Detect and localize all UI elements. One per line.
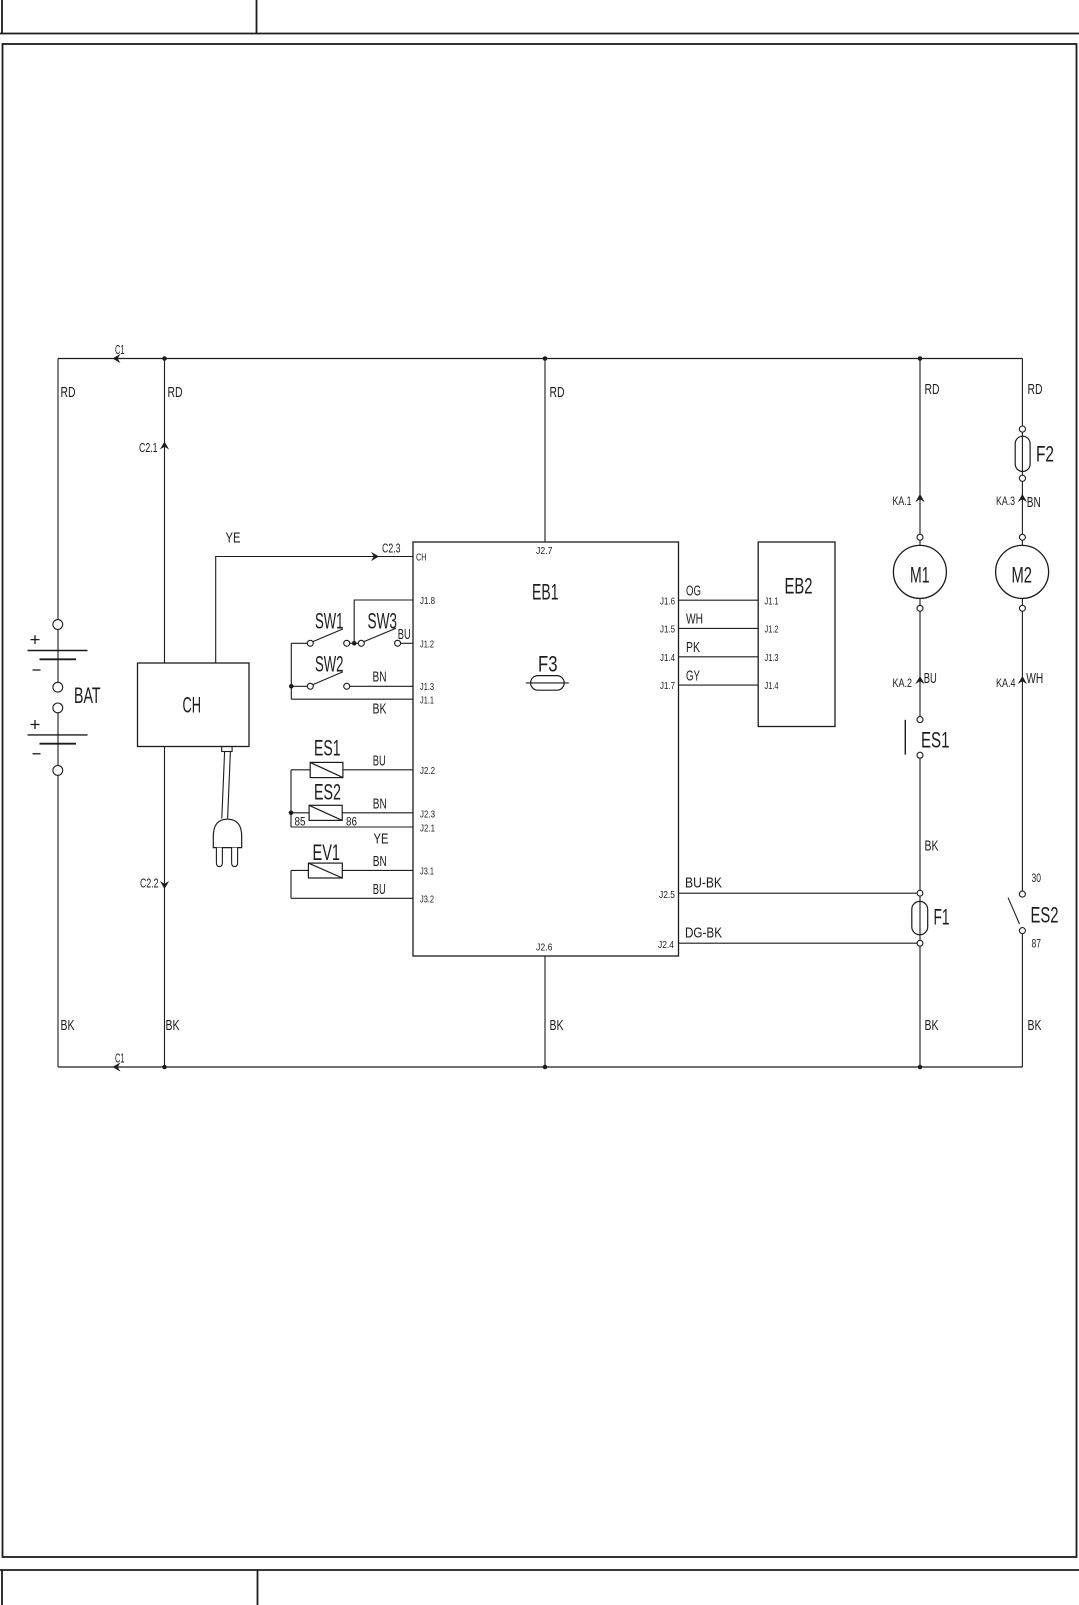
svg-text:BN: BN xyxy=(373,796,387,813)
relay coil ES2 box xyxy=(309,805,342,820)
svg-text:J1.1: J1.1 xyxy=(765,596,779,608)
battery cell 2 minus sign xyxy=(33,753,41,755)
svg-text:WH: WH xyxy=(686,611,703,628)
svg-text:RD: RD xyxy=(61,384,76,401)
battery cell 2 long plate xyxy=(28,734,88,736)
svg-text:DG-BK: DG-BK xyxy=(685,925,722,942)
wire SW1 to SW3 xyxy=(350,642,359,644)
svg-text:BN: BN xyxy=(373,669,387,686)
svg-text:KA.4: KA.4 xyxy=(996,676,1016,690)
svg-text:J1.8: J1.8 xyxy=(420,595,435,607)
junction SW2 node xyxy=(289,684,294,689)
fuse F2 body xyxy=(1015,436,1030,471)
battery mid terminal circle upper xyxy=(53,682,63,692)
svg-text:M2: M2 xyxy=(1012,563,1033,588)
wire BN SW2 to EB1 J1.3 xyxy=(350,685,413,687)
svg-text:BK: BK xyxy=(925,838,939,855)
svg-text:SW2: SW2 xyxy=(315,652,344,677)
wire BN EV1 to EB1 J3.1 xyxy=(342,869,413,871)
battery cell 2 short plate xyxy=(40,743,77,745)
fuse F1 terminal circle top xyxy=(917,890,923,896)
battery mid terminal circle lower xyxy=(53,703,63,713)
svg-text:RD: RD xyxy=(550,384,565,401)
wire YE charger to EB1 pin CH xyxy=(216,557,413,664)
svg-text:C2.3: C2.3 xyxy=(382,542,401,556)
fuse F1 element line xyxy=(919,896,921,940)
switch SW1 left contact xyxy=(307,640,313,646)
svg-text:ES1: ES1 xyxy=(314,736,341,761)
svg-text:ES2: ES2 xyxy=(1031,903,1059,928)
svg-text:F2: F2 xyxy=(1036,442,1054,467)
switch SW3 right contact xyxy=(395,640,401,646)
wire GY EB1 J1.7 to EB2 J1.4 xyxy=(679,684,759,686)
junction top bus / charger branch xyxy=(162,356,167,361)
relay coil ES1 box xyxy=(310,762,343,777)
wire BU ES1 to EB1 J2.2 xyxy=(343,769,413,771)
wire battery positive RD xyxy=(57,359,59,620)
svg-text:PK: PK xyxy=(686,639,700,656)
svg-text:SW1: SW1 xyxy=(315,609,344,634)
wire coil common vertical xyxy=(290,770,292,827)
node KA.1 arrow xyxy=(915,494,924,502)
wire RD top bus corner to F2 xyxy=(1021,359,1023,427)
motor M2 body circle xyxy=(996,545,1049,598)
svg-text:ES1: ES1 xyxy=(921,728,950,753)
wire BK EB1 J2.6 to bottom bus xyxy=(544,956,546,1067)
node C2.2 arrow xyxy=(160,881,169,889)
svg-text:CH: CH xyxy=(183,693,202,718)
wire EB1 J1.8 to SW3 junction xyxy=(354,600,413,643)
wire C2.1 top bus to charger xyxy=(164,359,166,664)
wire M1 top terminal xyxy=(919,540,921,545)
wire WH M2 to ES2 contact xyxy=(1021,611,1023,891)
wire BU SW3 to EB1 J1.2 xyxy=(401,642,413,644)
contact ES1 fixed bar xyxy=(904,720,906,755)
contact ES2 blade xyxy=(1008,898,1019,924)
wire RD top bus to M1 xyxy=(919,359,921,535)
wire DG-BK EB1 J2.4 to F1 bottom xyxy=(679,942,918,944)
switch SW1 right contact xyxy=(344,640,350,646)
junction top bus / EB1 J2.7 branch xyxy=(543,356,548,361)
wire BU-BK EB1 J2.5 to F1 top xyxy=(679,892,918,894)
title block bottom strip left edge xyxy=(1,1570,3,1605)
svg-text:BK: BK xyxy=(61,1017,75,1034)
wire BK common to EB1 J1.1 xyxy=(291,698,413,700)
svg-text:EB2: EB2 xyxy=(785,574,813,599)
switch SW2 right contact xyxy=(344,683,350,689)
node KA.4 arrow xyxy=(1018,676,1027,684)
fuse F3 body xyxy=(531,676,565,691)
title block top strip divider xyxy=(256,0,258,34)
wire battery negative BK xyxy=(57,775,59,1067)
junction bottom bus / F1 branch xyxy=(918,1065,923,1070)
wire PK EB1 J1.4 to EB2 J1.3 xyxy=(679,656,759,658)
svg-text:WH: WH xyxy=(1026,670,1043,687)
fuse F3 element line xyxy=(526,682,569,684)
wire BN F2 to M2 xyxy=(1021,481,1023,534)
svg-text:EV1: EV1 xyxy=(313,840,341,865)
contact ES2 terminal circle 87 xyxy=(1019,928,1025,934)
svg-text:87: 87 xyxy=(1032,939,1042,951)
svg-text:C1: C1 xyxy=(115,1052,125,1066)
svg-text:J1.6: J1.6 xyxy=(660,596,675,608)
svg-text:BK: BK xyxy=(550,1017,564,1034)
svg-text:M1: M1 xyxy=(910,563,930,588)
svg-text:BN: BN xyxy=(373,853,387,870)
wire battery cell 1 xyxy=(57,629,59,682)
battery BAT terminal circle top xyxy=(53,620,63,630)
svg-text:C2.2: C2.2 xyxy=(140,877,159,891)
svg-text:J1.3: J1.3 xyxy=(420,681,434,693)
junction SW1/SW3 node xyxy=(352,641,357,646)
motor M1 terminal circle bottom xyxy=(917,605,923,611)
svg-text:J2.1: J2.1 xyxy=(420,823,435,835)
svg-text:C2.1: C2.1 xyxy=(139,441,158,455)
svg-text:30: 30 xyxy=(1032,873,1042,885)
title block bottom strip divider xyxy=(257,1570,259,1605)
svg-text:J2.4: J2.4 xyxy=(658,939,674,951)
junction ES2 coil node xyxy=(289,811,294,816)
wire BU M1 to ES1 contact xyxy=(919,611,921,716)
svg-text:BU: BU xyxy=(924,670,937,687)
svg-text:J2.6: J2.6 xyxy=(536,942,553,954)
svg-text:J1.4: J1.4 xyxy=(765,680,779,692)
wire RD top bus to EB1 J2.7 xyxy=(544,359,546,543)
wire BK ES2 to bottom bus xyxy=(1021,934,1023,1067)
contact ES2 terminal circle 30 xyxy=(1019,891,1025,897)
wire BN ES2 to EB1 J2.3 xyxy=(342,812,413,814)
wire M2 top terminal xyxy=(1021,540,1023,545)
svg-text:RD: RD xyxy=(168,384,183,401)
node C2.1 arrow xyxy=(160,442,169,450)
wire charger to bottom bus C2.2 xyxy=(164,747,166,1068)
svg-text:J2.2: J2.2 xyxy=(420,765,435,777)
title block top strip bottom line xyxy=(0,33,1079,35)
wire YE common to EB1 J2.1 xyxy=(291,826,413,828)
svg-text:BK: BK xyxy=(1028,1017,1042,1034)
svg-text:F3: F3 xyxy=(538,652,558,677)
fuse F1 body xyxy=(912,901,928,934)
switch SW3 left contact xyxy=(358,640,364,646)
title block bottom strip top line xyxy=(0,1569,1079,1571)
svg-text:J1.1: J1.1 xyxy=(420,695,434,707)
svg-text:RD: RD xyxy=(925,381,940,398)
wire top supply bus RD xyxy=(58,358,1022,360)
svg-text:BK: BK xyxy=(373,701,387,718)
svg-text:EB1: EB1 xyxy=(532,580,559,605)
svg-text:J2.3: J2.3 xyxy=(420,809,435,821)
svg-text:J2.7: J2.7 xyxy=(536,545,553,557)
svg-text:KA.2: KA.2 xyxy=(893,676,913,690)
svg-text:J1.3: J1.3 xyxy=(765,652,779,664)
valve coil EV1 box xyxy=(308,863,342,878)
wire OG EB1 J1.6 to EB2 J1.1 xyxy=(679,599,759,601)
svg-text:GY: GY xyxy=(686,668,700,685)
svg-text:ES2: ES2 xyxy=(314,780,341,805)
plug cord xyxy=(222,752,225,819)
wire SW1 left feed xyxy=(291,642,307,644)
wire ES1 left xyxy=(291,769,310,771)
battery cell 2 plus sign xyxy=(31,724,40,726)
svg-text:J3.2: J3.2 xyxy=(420,894,434,906)
motor M2 terminal circle top xyxy=(1019,534,1025,540)
contact ES1 terminal circle bottom xyxy=(917,752,923,758)
wire M2 bottom terminal xyxy=(1021,598,1023,605)
switch SW3 blade xyxy=(364,628,396,641)
svg-text:RD: RD xyxy=(1028,381,1043,398)
wire M1 bottom terminal xyxy=(919,598,921,605)
svg-text:YE: YE xyxy=(374,831,389,848)
svg-text:CH: CH xyxy=(416,552,427,564)
node C2.3 arrow xyxy=(371,552,379,561)
battery BAT terminal circle bottom xyxy=(53,766,63,776)
svg-text:J1.2: J1.2 xyxy=(765,624,779,636)
plug cord grommet xyxy=(222,747,232,752)
wire ES2 left xyxy=(291,812,309,814)
junction bottom bus / charger branch xyxy=(162,1065,167,1070)
svg-text:J1.4: J1.4 xyxy=(660,652,675,664)
node C1 arrow on bottom bus xyxy=(113,1062,121,1071)
display unit EB2 box xyxy=(758,542,835,727)
contact ES1 terminal circle top xyxy=(917,717,923,723)
control unit EB1 box xyxy=(413,542,679,956)
wire BK F1 to bottom bus xyxy=(919,946,921,1067)
svg-text:BK: BK xyxy=(166,1017,180,1034)
motor M2 terminal circle bottom xyxy=(1019,605,1025,611)
svg-text:C1: C1 xyxy=(115,343,125,357)
battery cell 1 plus sign xyxy=(31,639,40,641)
svg-text:OG: OG xyxy=(686,583,701,600)
svg-text:F1: F1 xyxy=(934,905,950,930)
motor M1 terminal circle top xyxy=(917,534,923,540)
svg-text:BK: BK xyxy=(925,1017,939,1034)
switch SW1 blade xyxy=(313,629,343,642)
junction bottom bus / EB1 J2.6 branch xyxy=(543,1065,548,1070)
wire EV1 common vertical xyxy=(290,870,292,898)
wire switch common vertical xyxy=(290,643,292,699)
battery cell 1 short plate xyxy=(40,658,77,660)
svg-text:BU: BU xyxy=(373,881,386,898)
plug prong right xyxy=(232,848,238,867)
node C1 arrow on top bus xyxy=(113,354,121,363)
battery cell 1 minus sign xyxy=(33,669,41,671)
wire BK ES1 contact to F1 xyxy=(919,758,921,890)
switch SW2 blade xyxy=(313,672,343,685)
fuse F2 terminal circle top xyxy=(1019,426,1025,432)
fuse F2 element line xyxy=(1021,432,1023,475)
svg-text:J1.5: J1.5 xyxy=(660,624,675,636)
charger CH box xyxy=(138,663,250,747)
motor M1 body circle xyxy=(893,545,946,598)
plug prong left xyxy=(216,848,222,867)
svg-text:KA.3: KA.3 xyxy=(996,494,1015,508)
svg-text:BU: BU xyxy=(398,626,411,643)
svg-text:YE: YE xyxy=(226,530,241,547)
junction top bus / motor M1 branch xyxy=(918,356,923,361)
svg-text:J3.1: J3.1 xyxy=(420,866,434,878)
title block top strip left edge xyxy=(1,0,3,34)
fuse F1 terminal circle bottom xyxy=(917,940,923,946)
svg-text:BN: BN xyxy=(1027,494,1041,511)
svg-text:J1.7: J1.7 xyxy=(660,680,675,692)
svg-text:BU-BK: BU-BK xyxy=(685,875,722,892)
wire WH EB1 J1.5 to EB2 J1.2 xyxy=(679,627,759,629)
svg-text:J2.5: J2.5 xyxy=(659,889,675,901)
wire SW2 left feed xyxy=(291,685,307,687)
wire BU common to EB1 J3.2 xyxy=(291,897,413,899)
battery cell 1 long plate xyxy=(28,650,88,652)
switch SW2 left contact xyxy=(307,683,313,689)
wire bottom ground bus BK xyxy=(58,1066,1022,1068)
svg-text:KA.1: KA.1 xyxy=(893,494,912,508)
svg-text:BU: BU xyxy=(373,753,386,770)
node KA.2 arrow xyxy=(915,676,924,684)
svg-text:J1.2: J1.2 xyxy=(420,639,434,651)
wire battery cell 2 xyxy=(57,713,59,766)
node KA.3 arrow xyxy=(1018,494,1027,502)
wire EV1 left xyxy=(291,869,308,871)
svg-text:BAT: BAT xyxy=(74,683,101,708)
fuse F2 terminal circle bottom xyxy=(1019,475,1025,481)
plug body xyxy=(213,819,241,847)
